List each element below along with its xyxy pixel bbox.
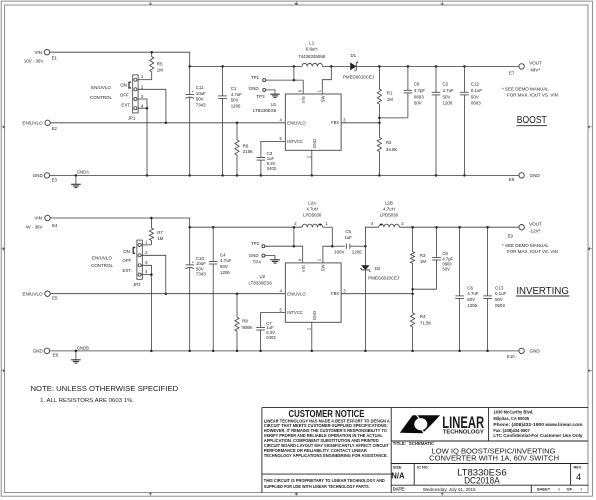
capacitor C8: [404, 66, 413, 118]
underline BOOST: [517, 125, 548, 127]
border tick left: [1, 369, 4, 372]
svg-text:4.7uF: 4.7uF: [231, 92, 243, 97]
svg-text:GND: GND: [312, 311, 317, 320]
junction node X: [364, 245, 367, 248]
svg-text:JP1: JP1: [128, 115, 136, 120]
capacitor C4: [209, 227, 218, 351]
wire SW node to C5: [332, 245, 345, 247]
svg-text:FOR MAX. IOUT VS. VIN: FOR MAX. IOUT VS. VIN: [507, 249, 558, 254]
wire VOUT rail inverting: [399, 226, 519, 228]
svg-text:2: 2: [145, 250, 148, 255]
svg-text:R6: R6: [243, 143, 249, 148]
svg-text:ON: ON: [123, 249, 130, 254]
wire VIN pin drop: [302, 80, 304, 94]
svg-text:0.1uF: 0.1uF: [495, 291, 507, 296]
wire TP2 to VIN pin: [265, 245, 303, 247]
capacitor C13: [483, 227, 492, 351]
svg-text:BOOST: BOOST: [517, 114, 547, 126]
svg-text:C13: C13: [495, 285, 504, 290]
svg-text:4.7uF: 4.7uF: [467, 291, 479, 296]
svg-text:4.7uH: 4.7uH: [306, 207, 318, 212]
junction L1 right: [330, 65, 333, 68]
svg-text:50V: 50V: [414, 101, 422, 106]
border tick right: [588, 247, 592, 250]
svg-text:50V: 50V: [443, 94, 451, 99]
ground GNDA: [71, 184, 81, 187]
wire FBX to node: [341, 122, 379, 124]
svg-text:EN/UVLO: EN/UVLO: [287, 120, 306, 125]
capacitor C2: [432, 66, 441, 175]
svg-text:GND: GND: [530, 349, 541, 354]
svg-text:OF: OF: [567, 487, 573, 492]
svg-text:DATE:: DATE:: [393, 487, 406, 492]
svg-text:LTC Confidential-For Customer: LTC Confidential-For Customer Use Only: [493, 433, 583, 438]
svg-text:6: 6: [298, 89, 303, 92]
svg-text:1. ALL RESISTORS ARE 0603 1%.: 1. ALL RESISTORS ARE 0603 1%.: [40, 398, 134, 404]
junction L2A left: [293, 226, 296, 229]
svg-text:Wednesday, July 01, 2015: Wednesday, July 01, 2015: [423, 487, 476, 492]
inductor L1: [302, 63, 323, 66]
svg-text:OFF: OFF: [122, 258, 131, 263]
svg-text:VIN: VIN: [301, 265, 306, 272]
IC U1 LT8330ES6: [285, 94, 341, 150]
wire TP1 to VIN pin: [266, 79, 304, 81]
terminal E1 VIN: [44, 50, 49, 55]
wire U1 GND pin: [311, 150, 313, 175]
phase dot L2A: [319, 224, 321, 226]
wire L2A left to VIN jog: [293, 227, 295, 246]
junction C1 tap: [221, 65, 224, 68]
svg-text:R7: R7: [157, 230, 163, 235]
svg-text:SCHEMATIC: SCHEMATIC: [409, 441, 434, 446]
resistor R7: [149, 218, 153, 245]
wire TP4 to ground: [265, 256, 275, 260]
wire L2A to SW corner: [323, 226, 333, 228]
svg-text:TP4: TP4: [253, 259, 262, 264]
wire VOUT rail: [356, 65, 519, 67]
svg-text:INVERTING: INVERTING: [516, 285, 569, 297]
svg-text:C12: C12: [471, 82, 480, 87]
svg-text:C1: C1: [231, 86, 237, 91]
jumper JP1 shunt bracket: [129, 82, 131, 88]
svg-text:SW: SW: [320, 96, 325, 103]
svg-text:0.1uF: 0.1uF: [471, 88, 483, 93]
svg-text:7343: 7343: [196, 102, 206, 107]
wire EN/UVLO rail inverting: [50, 293, 285, 295]
svg-text:GND: GND: [249, 86, 260, 91]
svg-text:C6: C6: [467, 285, 473, 290]
svg-text:1: 1: [558, 487, 561, 492]
svg-text:50V: 50V: [495, 297, 503, 302]
wire GND rail top circuit: [50, 174, 519, 176]
wire R7 to JP2 pin1: [141, 244, 151, 246]
svg-text:R5: R5: [157, 62, 163, 67]
svg-text:3: 3: [145, 260, 148, 265]
svg-text:2: 2: [141, 84, 144, 89]
svg-text:6: 6: [298, 258, 303, 261]
terminal E7 VOUT: [519, 64, 524, 69]
junction R6 gnd: [236, 174, 239, 177]
svg-text:C8: C8: [414, 82, 420, 87]
svg-text:THIS CIRCUIT IS PROPRIETARY TO: THIS CIRCUIT IS PROPRIETARY TO LINEAR TE…: [264, 478, 385, 483]
wire R3 to FBX node: [412, 289, 414, 294]
border tick bottom: [441, 493, 444, 497]
svg-text:E5: E5: [52, 296, 58, 301]
svg-text:+: +: [192, 259, 195, 264]
svg-text:4: 4: [576, 472, 581, 482]
svg-text:L2B: L2B: [385, 200, 393, 205]
svg-text:ON: ON: [120, 82, 127, 87]
svg-text:4.7pF: 4.7pF: [414, 88, 426, 93]
wire JP2 pin4 to GND rail: [141, 275, 151, 351]
phase dot L2B: [380, 224, 382, 226]
svg-text:GND: GND: [249, 253, 260, 258]
junction R6 top: [236, 122, 239, 125]
junction U2 gnd: [311, 350, 314, 353]
svg-text:0402: 0402: [267, 166, 277, 171]
svg-text:LPD5030: LPD5030: [303, 212, 322, 217]
capacitor C11: [185, 66, 194, 175]
svg-text:U1: U1: [271, 102, 277, 107]
svg-text:SIZE: SIZE: [393, 466, 402, 470]
svg-text:1: 1: [317, 258, 322, 261]
svg-text:DC2018A: DC2018A: [464, 476, 500, 486]
resistor R2: [377, 123, 381, 176]
logo LT mark: [400, 415, 440, 434]
svg-text:SUPPLIED FOR USE WITH LINEAR T: SUPPLIED FOR USE WITH LINEAR TECHNOLOGY …: [264, 484, 370, 489]
capacitor C5: [347, 244, 366, 249]
svg-text:GNDB: GNDB: [77, 345, 89, 350]
junction L1 left: [293, 65, 296, 68]
svg-text:3: 3: [401, 221, 404, 226]
jumper JP1: [133, 75, 138, 113]
border tick bottom: [295, 493, 298, 497]
svg-text:1uF: 1uF: [344, 235, 352, 240]
border tick left: [1, 247, 4, 250]
wire SW node drop: [323, 227, 332, 263]
svg-text:TECHNOLOGY APPLICATIONS ENGINE: TECHNOLOGY APPLICATIONS ENGINEERING FOR …: [264, 453, 388, 458]
svg-text:LT8330ES6: LT8330ES6: [253, 108, 277, 113]
svg-text:E3: E3: [52, 177, 58, 182]
svg-text:2: 2: [307, 155, 312, 158]
svg-text:1206: 1206: [352, 250, 362, 255]
wire INTVCC jog inverting: [261, 313, 286, 328]
svg-text:34.8K: 34.8K: [386, 147, 398, 152]
wire R5 to JP1 pin1: [138, 79, 152, 81]
junction FBX node: [378, 122, 381, 125]
junction JP2 gnd: [150, 350, 153, 353]
diode D2 PMEG6010CEJ: [360, 246, 371, 351]
svg-text:LT8330ES6: LT8330ES6: [249, 281, 273, 286]
svg-text:GNDA: GNDA: [77, 170, 89, 175]
svg-text:1: 1: [325, 221, 328, 226]
svg-text:LPD5030: LPD5030: [380, 212, 399, 217]
svg-text:5: 5: [279, 307, 282, 312]
svg-text:VIN: VIN: [301, 96, 306, 103]
svg-text:EN/UVLO: EN/UVLO: [22, 120, 43, 125]
svg-text:1M: 1M: [157, 68, 163, 73]
junction C13 gnd: [486, 350, 489, 353]
svg-text:SW: SW: [320, 264, 325, 271]
svg-text:E1: E1: [52, 55, 58, 60]
junction JP2 pin2 on EN rail: [165, 292, 168, 295]
resistor R6: [235, 123, 239, 176]
svg-text:4V - 36V: 4V - 36V: [25, 224, 42, 229]
wire VIN E4 rail to jog: [50, 218, 190, 227]
svg-text:1M: 1M: [157, 236, 163, 241]
border tick right: [588, 369, 592, 372]
junction R8 gnd: [236, 350, 239, 353]
capacitor C12: [460, 66, 469, 175]
capacitor C10: [185, 227, 194, 351]
junction C12 gnd: [463, 174, 466, 177]
terminal TP4: [262, 254, 265, 257]
svg-text:C2: C2: [443, 82, 449, 87]
svg-text:1206: 1206: [220, 270, 230, 275]
wire R1 to FBX node: [378, 118, 380, 123]
svg-text:C11: C11: [196, 85, 204, 90]
svg-text:4: 4: [141, 103, 144, 108]
terminal E6 GND: [44, 348, 49, 353]
terminal E4 VIN: [45, 215, 50, 220]
svg-text:806K: 806K: [242, 325, 252, 330]
svg-text:SHEET: SHEET: [537, 487, 551, 492]
svg-text:R8: R8: [242, 318, 248, 323]
svg-text:PMEG6010CEJ: PMEG6010CEJ: [343, 74, 374, 79]
junction JP1 pin2 on EN rail: [165, 122, 168, 125]
junction C4 tap: [212, 226, 215, 229]
svg-text:E7: E7: [509, 71, 515, 76]
junction GNDA: [75, 174, 78, 177]
svg-text:EN/UVLO: EN/UVLO: [92, 256, 112, 261]
svg-text:EN/UVLO: EN/UVLO: [91, 85, 111, 90]
wire INTVCC jog: [261, 141, 285, 157]
junction SW node: [331, 245, 334, 248]
svg-text:TITLE:: TITLE:: [393, 441, 407, 446]
svg-text:TP2: TP2: [251, 241, 260, 246]
svg-text:1206: 1206: [231, 104, 241, 109]
svg-text:74438335068: 74438335068: [298, 54, 325, 59]
svg-text:71.5K: 71.5K: [420, 320, 432, 325]
svg-text:48V*: 48V*: [530, 68, 540, 73]
svg-text:C5: C5: [345, 229, 351, 234]
svg-text:4.7uF: 4.7uF: [220, 258, 232, 263]
svg-text:6.8uH: 6.8uH: [306, 47, 318, 52]
junction R1 C8 bottom: [378, 117, 381, 120]
wire JP2 pin3: [141, 265, 151, 274]
svg-text:INTVCC: INTVCC: [287, 139, 303, 144]
junction C1 gnd: [221, 174, 224, 177]
junction C13 top: [486, 226, 489, 229]
svg-text:1206: 1206: [467, 303, 477, 308]
svg-text:4: 4: [145, 269, 148, 274]
svg-text:1: 1: [145, 239, 148, 244]
wire FBX to node inverting: [341, 293, 413, 295]
svg-text:IC NO.: IC NO.: [417, 466, 429, 470]
svg-text:* SEE DEMO MANUAL: * SEE DEMO MANUAL: [502, 243, 549, 248]
junction C10 tap: [188, 226, 191, 229]
resistor R3: [411, 227, 415, 289]
junction R2 gnd: [378, 174, 381, 177]
wire node X up to L2B: [365, 227, 378, 246]
svg-text:GND: GND: [312, 139, 317, 148]
junction R3 C9 bottom: [411, 288, 414, 291]
svg-text:1206: 1206: [443, 101, 453, 106]
wire JP1 pin4 to GND rail: [138, 108, 147, 175]
svg-text:1: 1: [580, 487, 583, 492]
resistor R4: [411, 294, 415, 351]
wire U2 GND pin: [311, 322, 313, 351]
svg-text:EN/UVLO: EN/UVLO: [287, 291, 306, 296]
junction FBX node inverting: [411, 292, 414, 295]
junction R3 top: [411, 226, 414, 229]
wire GNDA stem: [75, 175, 77, 184]
junction C10 gnd: [188, 350, 191, 353]
capacitor C7: [256, 327, 265, 351]
svg-text:VOUT: VOUT: [529, 221, 542, 226]
junction C8 top: [407, 65, 410, 68]
svg-text:Phone: (408)432-1900 www.line: Phone: (408)432-1900 www.linear.com: [493, 422, 583, 427]
capacitor C3: [257, 158, 266, 176]
svg-text:E9: E9: [508, 234, 514, 239]
svg-text:10V - 36V: 10V - 36V: [24, 59, 44, 64]
border tick top: [441, 1, 444, 5]
svg-text:FBX: FBX: [331, 120, 339, 125]
wire JP2 pin2 to EN rail: [141, 255, 166, 293]
wire VIN E1 rail to jog: [50, 52, 190, 66]
terminal TP2: [262, 245, 265, 248]
wire EN/UVLO rail: [50, 122, 285, 124]
svg-text:C4: C4: [220, 252, 226, 257]
svg-text:D2: D2: [375, 266, 381, 271]
svg-text:10uF: 10uF: [196, 261, 206, 266]
svg-text:VIN: VIN: [34, 50, 42, 55]
svg-text:2: 2: [294, 221, 297, 226]
svg-text:E6: E6: [53, 353, 59, 358]
svg-text:U2: U2: [259, 274, 265, 279]
junction R4 gnd: [411, 350, 414, 353]
svg-text:N/A: N/A: [391, 471, 405, 480]
title block frame lines: [262, 408, 588, 493]
svg-text:L2A: L2A: [308, 200, 316, 205]
junction JP1 pin3-4: [146, 107, 149, 110]
svg-text:VIN: VIN: [34, 216, 42, 221]
terminal TP3: [263, 88, 266, 91]
wire VIN rail to L2A: [190, 226, 302, 228]
terminal E5 EN/UVLO: [45, 291, 50, 296]
svg-text:GND: GND: [33, 349, 44, 354]
svg-text:50V: 50V: [231, 98, 239, 103]
svg-text:R3: R3: [420, 253, 426, 258]
svg-text:50V: 50V: [442, 267, 450, 272]
wire SW pin drop: [322, 66, 331, 94]
svg-text:CONTROL: CONTROL: [91, 263, 113, 268]
junction C2 top: [435, 65, 438, 68]
capacitor C1: [218, 66, 227, 175]
svg-text:+: +: [192, 89, 195, 94]
svg-text:GND: GND: [530, 173, 541, 178]
wire L1 to D1: [323, 65, 350, 67]
junction C7 gnd: [259, 350, 262, 353]
border tick top: [295, 1, 298, 5]
capacitor C6: [455, 227, 464, 351]
junction JP2 pin3-4: [150, 273, 153, 276]
svg-text:7343: 7343: [196, 272, 206, 277]
svg-text:TP1: TP1: [251, 75, 260, 80]
svg-text:10uF: 10uF: [196, 91, 206, 96]
svg-text:1: 1: [317, 89, 322, 92]
junction JP1 gnd: [146, 174, 149, 177]
svg-text:4.7uH: 4.7uH: [383, 207, 395, 212]
svg-text:3: 3: [141, 94, 144, 99]
svg-text:GND: GND: [33, 173, 44, 178]
border tick top: [149, 1, 152, 5]
svg-text:EXT.: EXT.: [123, 268, 132, 273]
svg-text:0402: 0402: [266, 335, 276, 340]
svg-text:4.7uF: 4.7uF: [443, 88, 455, 93]
junction R8 top: [236, 292, 239, 295]
border tick bottom: [149, 493, 152, 497]
svg-text:D1: D1: [350, 53, 356, 58]
inductor L2B: [379, 224, 400, 227]
svg-text:3: 3: [343, 288, 346, 293]
svg-text:0603: 0603: [414, 94, 424, 99]
svg-text:TECHNOLOGY: TECHNOLOGY: [443, 430, 485, 436]
jumper JP2 shunt bracket: [133, 248, 135, 254]
svg-text:50V: 50V: [471, 94, 479, 99]
underline INVERTING: [516, 295, 569, 297]
diode D1 PMEG6010CEJ: [350, 61, 358, 71]
wire C9 bottom to R3: [413, 288, 437, 290]
junction U1 gnd: [311, 174, 314, 177]
junction C4 gnd: [212, 350, 215, 353]
svg-text:EN/UVLO: EN/UVLO: [22, 291, 43, 296]
svg-text:E8: E8: [509, 177, 515, 182]
wire U2 VIN pin drop: [302, 246, 304, 263]
svg-text:R1: R1: [387, 91, 393, 96]
wire VIN rail to L1: [190, 65, 302, 67]
junction R5 top: [150, 51, 153, 54]
junction TP1 VIN jog: [293, 79, 296, 82]
svg-text:50V: 50V: [220, 264, 228, 269]
svg-text:TP3: TP3: [256, 94, 265, 99]
svg-text:100V: 100V: [334, 249, 344, 254]
wire GNDB stem: [75, 351, 77, 360]
svg-text:FOR MAX. IOUT VS. VIN: FOR MAX. IOUT VS. VIN: [507, 93, 558, 98]
svg-text:NOTE: UNLESS OTHERWISE SPECIFI: NOTE: UNLESS OTHERWISE SPECIFIED: [31, 384, 179, 393]
svg-text:-12V*: -12V*: [529, 228, 541, 233]
junction C11 gnd: [188, 174, 191, 177]
wire GND rail inverting: [50, 350, 519, 352]
svg-text:1M: 1M: [420, 259, 426, 264]
inductor L2A: [302, 224, 323, 227]
junction R7 top: [150, 217, 153, 220]
wire JP1 pin3: [138, 99, 147, 108]
svg-text:50V: 50V: [467, 297, 475, 302]
junction R1 top: [378, 65, 381, 68]
svg-text:PMEG6010CEJ: PMEG6010CEJ: [368, 275, 399, 280]
wire C8 bottom to R1: [379, 117, 408, 119]
junction D2 gnd: [364, 350, 367, 353]
terminal E2 EN/UVLO: [45, 120, 50, 125]
terminal E9 VOUT: [519, 225, 524, 230]
junction C12 top: [463, 65, 466, 68]
terminal E3 GND: [44, 173, 49, 178]
svg-text:REV.: REV.: [574, 466, 583, 470]
junction TP2 VIN jog: [293, 245, 296, 248]
resistor R5: [150, 52, 154, 79]
svg-text:3: 3: [343, 117, 346, 122]
